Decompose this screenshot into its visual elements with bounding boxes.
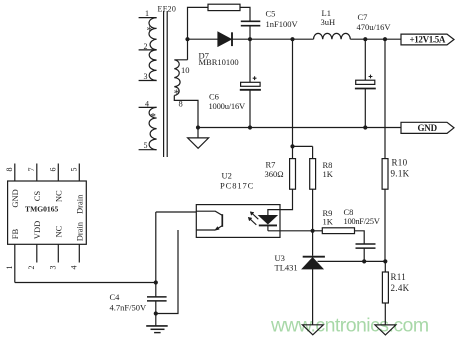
wire pin4 terminal <box>139 106 157 108</box>
node gnd C7 <box>363 125 367 129</box>
svg-text:1000u/16V: 1000u/16V <box>209 101 247 111</box>
svg-text:MBR10100: MBR10100 <box>199 57 239 67</box>
wire R7 bottom to LED anode <box>268 189 293 215</box>
wire L1 to +12V flag <box>350 38 401 40</box>
wire R9 left <box>313 230 323 232</box>
svg-text:10: 10 <box>181 65 190 75</box>
wire pin2 terminal <box>139 49 157 51</box>
capacitor C7 electrolytic <box>355 39 376 127</box>
opto phototransistor <box>196 211 222 230</box>
wire main bus D7 to L1 <box>232 38 314 40</box>
transformer primary winding 1-2 <box>149 18 157 50</box>
IC pin 8 wire <box>14 164 16 182</box>
diode D7 <box>218 32 231 46</box>
ground signal C4 <box>146 314 168 333</box>
svg-text:Drain: Drain <box>74 194 84 214</box>
plus sign C7 <box>369 75 373 79</box>
IC pin 1 wire <box>14 244 16 282</box>
optocoupler U2 box <box>196 205 280 238</box>
svg-text:Drain: Drain <box>74 221 84 241</box>
wire R11 top <box>384 261 386 272</box>
svg-text:5: 5 <box>144 141 148 150</box>
svg-text:C4: C4 <box>110 292 121 302</box>
plus sign C6 <box>253 76 257 80</box>
svg-text:NC: NC <box>53 190 63 202</box>
node C7 bus <box>363 37 367 41</box>
svg-text:4.7nF/50V: 4.7nF/50V <box>110 302 147 312</box>
svg-text:NC: NC <box>53 225 63 237</box>
svg-text:2: 2 <box>27 266 36 270</box>
svg-text:C7: C7 <box>358 12 368 22</box>
svg-text:www.cntronics.com: www.cntronics.com <box>270 315 429 337</box>
wire R10 bottom <box>384 189 386 261</box>
wire pin1 terminal <box>139 17 157 19</box>
wire LED cathode to node <box>268 230 313 232</box>
svg-text:GND: GND <box>418 123 438 133</box>
svg-text:TMG0165: TMG0165 <box>25 204 59 213</box>
wire R8 bottom <box>312 189 314 231</box>
svg-text:1: 1 <box>145 9 149 18</box>
node secondary/diode junction <box>185 37 189 41</box>
wire C8 bottom <box>363 248 365 261</box>
TL431 U3 <box>303 257 325 325</box>
svg-text:CS: CS <box>32 191 42 202</box>
svg-text:U2: U2 <box>222 171 232 181</box>
svg-text:+12V1.5A: +12V1.5A <box>410 35 446 45</box>
svg-text:3uH: 3uH <box>321 17 336 27</box>
svg-text:2: 2 <box>144 42 148 51</box>
node TL431 cathode <box>311 229 315 233</box>
opto light arrows <box>248 212 258 225</box>
wire R7/R8 tops <box>293 146 313 158</box>
svg-text:PC817C: PC817C <box>220 181 254 191</box>
svg-text:R10: R10 <box>392 157 408 167</box>
IC pin 7 wire <box>36 164 38 182</box>
opto LED <box>259 216 277 231</box>
transformer aux winding 4-5 <box>149 107 157 149</box>
wire secondary ground bus <box>198 127 401 129</box>
svg-text:2.4K: 2.4K <box>391 283 410 293</box>
svg-text:6: 6 <box>49 168 58 172</box>
ground secondary <box>188 128 209 149</box>
node R7 branch <box>290 37 294 41</box>
svg-text:*: * <box>150 110 156 124</box>
svg-text:GND: GND <box>10 189 20 207</box>
snubber resistor <box>208 4 240 10</box>
svg-text:*: * <box>147 23 153 37</box>
svg-text:R11: R11 <box>391 272 407 282</box>
svg-text:4: 4 <box>70 266 79 270</box>
capacitor C4 <box>147 283 167 314</box>
node C8 ref <box>362 259 366 263</box>
node divider ref <box>383 259 387 263</box>
node C5/C6 bus <box>248 37 252 41</box>
inductor L1 <box>314 33 351 39</box>
wire C5 to bus <box>249 26 251 40</box>
node R10 bus <box>383 37 387 41</box>
svg-text:5: 5 <box>70 168 79 172</box>
IC pin 5 wire <box>78 164 80 182</box>
wire opto emitter return <box>156 230 178 314</box>
wire snubber left <box>188 7 209 39</box>
wire R11 bottom <box>384 303 386 325</box>
transformer T1 core <box>164 11 168 157</box>
svg-text:TL431: TL431 <box>275 262 298 272</box>
svg-text:1nF100V: 1nF100V <box>266 19 299 29</box>
wire pin3 terminal <box>139 80 157 82</box>
svg-text:4: 4 <box>145 100 149 109</box>
svg-text:1: 1 <box>5 266 14 270</box>
capacitor C5 <box>241 21 260 25</box>
capacitor C8 <box>356 244 376 248</box>
svg-text:100nF/25V: 100nF/25V <box>344 216 381 226</box>
resistor R9 <box>322 228 354 234</box>
svg-text:EF20: EF20 <box>158 5 177 14</box>
node gnd secondary <box>196 125 200 129</box>
svg-text:C5: C5 <box>266 8 276 18</box>
node C4 bottom <box>154 311 158 315</box>
svg-text:FB: FB <box>10 228 20 239</box>
wire snubber right <box>240 7 250 21</box>
ground R11 <box>375 325 396 335</box>
connector flag +12V1.5A <box>401 34 454 45</box>
IC pin 3 wire <box>57 244 59 262</box>
wire TL431 cathode <box>312 231 314 256</box>
wire R7 branch from bus <box>292 39 294 146</box>
svg-text:1K: 1K <box>323 169 334 179</box>
IC U1 TMG0165 box <box>8 181 87 244</box>
wire opto collector to FB node <box>156 212 197 283</box>
wire secondary return <box>174 96 198 128</box>
transformer primary winding 2-3 <box>149 50 156 81</box>
svg-text:3: 3 <box>144 72 148 81</box>
wire R9 to C8 <box>355 231 365 244</box>
svg-text:3: 3 <box>49 266 58 270</box>
node FB/C4 <box>154 280 158 284</box>
svg-text:360Ω: 360Ω <box>265 169 284 179</box>
node R7/R8 junction <box>290 144 294 148</box>
wire TL431 ref <box>318 260 386 262</box>
svg-text:R7: R7 <box>266 159 276 169</box>
transformer secondary winding 10-8 <box>174 60 187 96</box>
wire FB to C4 node <box>15 282 156 284</box>
svg-text:470u/16V: 470u/16V <box>357 22 392 32</box>
svg-text:1K: 1K <box>323 217 334 227</box>
capacitor C6 electrolytic <box>240 39 261 127</box>
IC pin 2 wire <box>36 244 38 262</box>
wire pin5 terminal <box>139 149 157 151</box>
node gnd C6 <box>248 125 252 129</box>
svg-text:7: 7 <box>27 168 36 172</box>
resistor R11 <box>382 272 388 303</box>
resistor R8 <box>310 159 316 190</box>
svg-text:VDD: VDD <box>32 221 42 239</box>
IC pin 6 wire <box>57 164 59 182</box>
wire R10 branch <box>384 39 386 158</box>
svg-text:9.1K: 9.1K <box>391 169 410 179</box>
diode D7 cathode bar <box>231 32 233 46</box>
connector flag GND <box>401 122 454 133</box>
wire secondary top to node <box>187 39 189 60</box>
resistor R10 <box>382 159 388 190</box>
resistor R7 <box>290 159 296 190</box>
ground TL431 <box>302 325 323 335</box>
diode D7 wire anode <box>188 38 219 40</box>
IC pin 4 wire <box>78 244 80 262</box>
svg-text:8: 8 <box>5 168 14 172</box>
svg-text:C6: C6 <box>209 91 219 101</box>
